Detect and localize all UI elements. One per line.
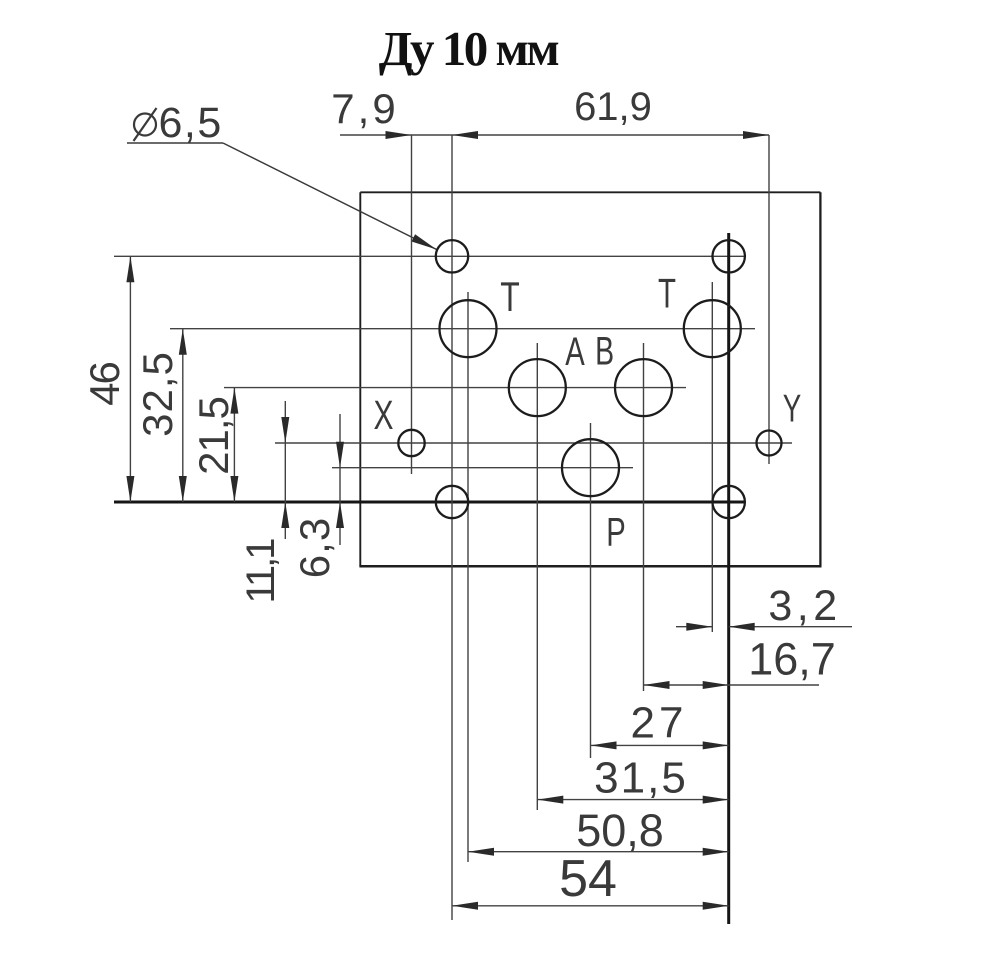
dimension 16,7 row y=685 bbox=[644, 684, 820, 686]
svg-text:32,5: 32,5 bbox=[134, 351, 181, 437]
svg-text:6,3: 6,3 bbox=[291, 517, 338, 578]
dimension 31,5 row y=799.6 bbox=[537, 799, 728, 801]
wire: T row y=328.7 bbox=[170, 328, 755, 330]
svg-text:54: 54 bbox=[559, 850, 617, 908]
dimension 46 vertical line bbox=[129, 256, 131, 502]
port T right bbox=[684, 300, 741, 357]
svg-text:Y: Y bbox=[783, 388, 802, 431]
svg-text:50,8: 50,8 bbox=[576, 805, 664, 856]
dimension 11,1 arrows (outside) bbox=[284, 401, 286, 539]
valve body outline rectangle bbox=[359, 192, 821, 566]
leader arrowhead bbox=[412, 234, 437, 249]
wire: left bolt column bbox=[451, 135, 453, 920]
svg-text:31,5: 31,5 bbox=[594, 754, 688, 803]
label ø6,5 with leader bbox=[134, 99, 223, 147]
wire: X-Y row y=443 bbox=[275, 442, 792, 444]
arrow at left bolt column pointing left bbox=[452, 131, 478, 139]
leader line to bolt hole bbox=[223, 143, 437, 250]
svg-text:Ду 10 мм: Ду 10 мм bbox=[379, 21, 559, 76]
svg-text:7,9: 7,9 bbox=[331, 85, 398, 132]
port X bbox=[398, 430, 424, 456]
svg-text:16,7: 16,7 bbox=[748, 634, 836, 685]
port T left bbox=[440, 300, 497, 357]
bolt hole top-left bbox=[436, 240, 468, 272]
svg-text:27: 27 bbox=[631, 699, 688, 748]
bolt hole bottom-left bbox=[436, 486, 468, 518]
arrow at Y column pointing right bbox=[743, 131, 769, 139]
wire: P row y=467.7 bbox=[332, 467, 633, 469]
svg-text:A: A bbox=[565, 330, 585, 374]
svg-text:11,1: 11,1 bbox=[239, 539, 283, 604]
port Y bbox=[757, 431, 782, 456]
dimension 50,8 row y=851.7 bbox=[468, 851, 729, 853]
wire: right bolt column (thick reference) bbox=[727, 233, 730, 924]
wire: B column bbox=[643, 343, 645, 691]
dimension 54 row y=905.8 bbox=[452, 905, 729, 907]
wire: bolt row bottom y=502 (thick) bbox=[114, 501, 745, 504]
wire: Y column bbox=[768, 135, 770, 464]
dimension 6,3 arrows (outside) bbox=[339, 414, 341, 545]
svg-text:T: T bbox=[500, 273, 520, 320]
port P bbox=[562, 439, 619, 496]
wire: bolt row top y=256.3 bbox=[114, 255, 745, 257]
svg-text:X: X bbox=[374, 392, 394, 438]
svg-text:21,5: 21,5 bbox=[190, 397, 237, 475]
dimension 27 row y=745.4 bbox=[591, 744, 729, 746]
wire: A column bbox=[536, 343, 538, 810]
wire: top dimension line y=135 bbox=[340, 134, 769, 136]
bolt hole bottom-right bbox=[713, 486, 745, 518]
svg-text:6,5: 6,5 bbox=[159, 99, 223, 147]
svg-text:46: 46 bbox=[81, 363, 128, 406]
dimension 3,2 row y=626.7 bbox=[676, 626, 712, 628]
dimension 21,5 vertical line bbox=[233, 388, 235, 502]
wire: P column bbox=[590, 423, 592, 758]
wire: T-left column bbox=[467, 292, 469, 862]
wire: T-right column bbox=[711, 282, 713, 632]
port B bbox=[615, 359, 672, 416]
svg-text:T: T bbox=[658, 270, 676, 317]
svg-text:P: P bbox=[606, 511, 626, 555]
wire: X column bbox=[411, 135, 413, 474]
arrow at X column pointing right bbox=[386, 131, 412, 139]
wire: A-B row y=387.6 bbox=[224, 387, 686, 389]
port A bbox=[509, 359, 566, 416]
svg-text:B: B bbox=[595, 330, 614, 374]
svg-text:3,2: 3,2 bbox=[768, 582, 841, 630]
leader underline bbox=[127, 142, 223, 144]
dimension 32,5 vertical line bbox=[182, 329, 184, 502]
svg-text:61,9: 61,9 bbox=[574, 85, 652, 129]
bolt hole top-right bbox=[713, 240, 745, 272]
